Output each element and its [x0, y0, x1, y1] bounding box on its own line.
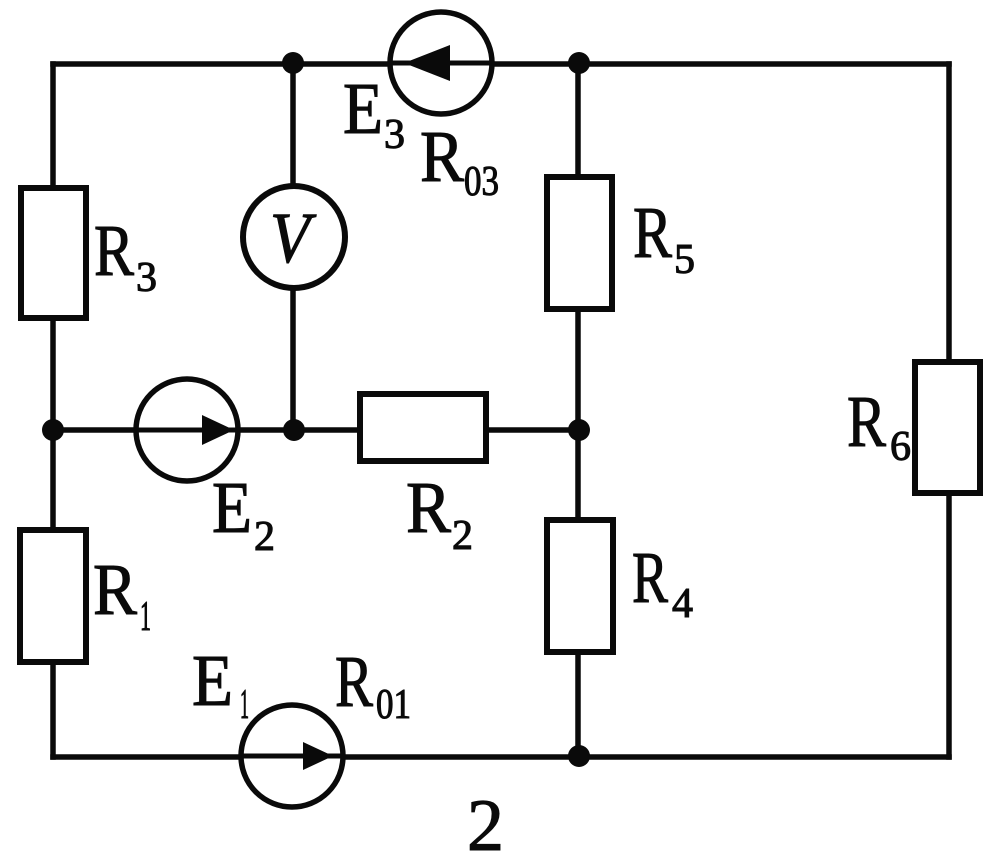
node bottom junction: [568, 745, 590, 767]
resistor R6: [915, 362, 980, 493]
svg-text:R: R: [335, 641, 373, 722]
wire left lower: [50, 662, 56, 757]
svg-text:2: 2: [254, 514, 275, 560]
wire bottom: [53, 754, 949, 760]
source E3: [390, 12, 492, 114]
svg-text:2: 2: [452, 513, 473, 559]
svg-text:R: R: [420, 116, 464, 197]
svg-text:R: R: [847, 381, 886, 462]
wire right lower: [946, 493, 952, 757]
label R6: [847, 381, 911, 470]
node center-middle junction: [283, 419, 305, 441]
resistor R5: [547, 177, 612, 309]
wire voltmeter branch lower: [290, 288, 296, 430]
svg-text:R: R: [633, 192, 672, 273]
wire center branch lower: [575, 652, 581, 757]
svg-text:2: 2: [467, 785, 504, 859]
svg-text:1: 1: [140, 594, 151, 640]
wire top: [53, 61, 949, 67]
resistor R3: [21, 188, 86, 318]
svg-text:6: 6: [890, 424, 911, 470]
label R01: [335, 641, 411, 728]
label E1: [192, 640, 249, 728]
wire right upper: [946, 64, 952, 362]
svg-text:01: 01: [376, 682, 411, 728]
svg-text:E: E: [343, 68, 383, 149]
wire left middle: [50, 318, 56, 530]
svg-text:R: R: [406, 467, 451, 548]
label R1: [93, 549, 151, 640]
wire left upper: [50, 64, 56, 188]
label R03: [420, 116, 499, 205]
source E1: [241, 705, 343, 807]
source E2: [136, 379, 238, 481]
label R3: [94, 210, 157, 301]
svg-text:V: V: [270, 198, 316, 278]
svg-text:1: 1: [240, 682, 249, 728]
svg-text:3: 3: [136, 255, 157, 301]
svg-text:E: E: [192, 640, 233, 721]
svg-text:03: 03: [464, 159, 499, 205]
svg-text:4: 4: [672, 581, 693, 627]
label E2: [212, 467, 275, 560]
node left-middle junction: [42, 419, 64, 441]
label figure number 2: [467, 785, 504, 859]
svg-text:R: R: [93, 549, 137, 630]
resistor R4: [547, 520, 613, 652]
wire middle right of R2: [486, 427, 578, 433]
svg-text:R: R: [94, 210, 134, 291]
label R5: [633, 192, 695, 283]
svg-text:R: R: [632, 537, 668, 618]
svg-text:E: E: [212, 467, 252, 548]
node right-middle junction: [568, 419, 590, 441]
wire middle horizontal: [53, 427, 360, 433]
resistor R1: [20, 530, 86, 662]
node top-left junction: [282, 52, 304, 74]
label R2: [406, 467, 473, 559]
svg-text:3: 3: [384, 112, 405, 158]
wire center branch middle: [575, 309, 581, 520]
label R4: [632, 537, 693, 627]
wire voltmeter branch upper: [290, 64, 296, 186]
label E3: [343, 68, 405, 158]
svg-text:5: 5: [674, 237, 695, 283]
voltmeter V: [243, 186, 345, 288]
wire center branch upper: [575, 64, 581, 177]
node top-right junction: [568, 52, 590, 74]
resistor R2: [360, 394, 486, 461]
